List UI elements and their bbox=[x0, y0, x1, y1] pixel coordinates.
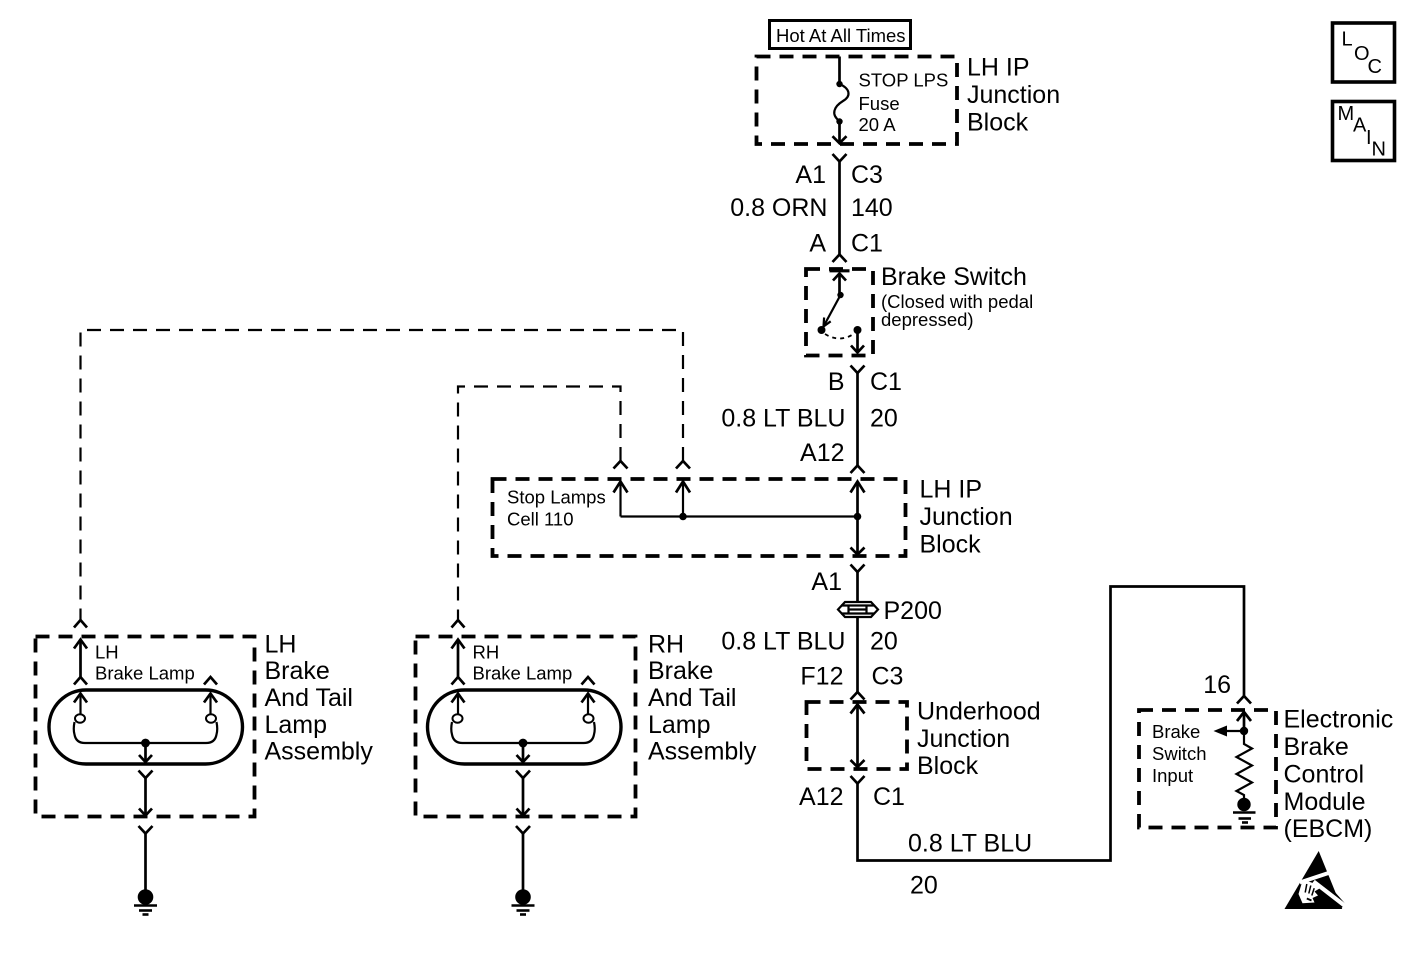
svg-text:P200: P200 bbox=[884, 597, 942, 625]
label RH Brake Lamp (inside box) bbox=[473, 642, 573, 684]
brake switch contacts and arm bbox=[818, 271, 865, 353]
fuse STOP LPS 20 A bbox=[833, 57, 949, 144]
LOC reference box bbox=[1333, 23, 1395, 82]
chevron into stop lamps box bbox=[851, 466, 865, 474]
svg-text:Block: Block bbox=[920, 531, 982, 559]
RH ground G402 bbox=[512, 889, 535, 914]
svg-text:Stop Lamps: Stop Lamps bbox=[507, 487, 606, 508]
brake switch dashed box bbox=[806, 269, 873, 356]
LH ground G401 bbox=[134, 889, 157, 914]
resistor inside EBCM bbox=[1237, 731, 1253, 798]
internal bus wires of stop lamps cell bbox=[614, 482, 865, 555]
LH brake and tail lamp assembly dashed box bbox=[36, 637, 255, 817]
wire into LH lamp bbox=[74, 640, 87, 685]
svg-text:Brake Lamp: Brake Lamp bbox=[473, 663, 573, 684]
terminal labels B / C1 bbox=[828, 368, 902, 396]
svg-text:C1: C1 bbox=[870, 368, 902, 396]
svg-text:A: A bbox=[809, 230, 826, 258]
svg-text:Hot At All Times: Hot At All Times bbox=[776, 25, 906, 46]
electronic brake control module dashed box bbox=[1139, 710, 1276, 828]
ground inside EBCM bbox=[1233, 798, 1256, 823]
svg-text:20 A: 20 A bbox=[859, 114, 897, 135]
wire through underhood junction block bbox=[851, 705, 865, 768]
svg-text:Input: Input bbox=[1152, 765, 1193, 786]
svg-text:16: 16 bbox=[1203, 671, 1231, 699]
wire labels 0.8 LT BLU / 20 bbox=[721, 628, 897, 656]
chevron at RH lamp right filament bbox=[582, 677, 595, 685]
connector below brake switch (V) bbox=[851, 366, 865, 374]
wire 0.8 LT BLU 20 run to EBCM bbox=[858, 587, 1245, 861]
svg-text:A12: A12 bbox=[799, 783, 843, 811]
svg-text:M: M bbox=[1338, 103, 1355, 125]
RH brake and tail lamp assembly dashed box bbox=[416, 637, 636, 817]
svg-text:Underhood: Underhood bbox=[917, 698, 1041, 726]
chevron into LH lamp box bbox=[74, 620, 87, 628]
MAIN reference box bbox=[1333, 102, 1395, 161]
svg-text:N: N bbox=[1372, 139, 1386, 161]
svg-text:A: A bbox=[1353, 115, 1367, 137]
svg-text:Assembly: Assembly bbox=[648, 738, 757, 766]
svg-text:Electronic: Electronic bbox=[1284, 706, 1394, 734]
wire to LH box edge bbox=[139, 778, 152, 816]
connector below stop lamps box (V) bbox=[851, 565, 865, 573]
svg-text:B: B bbox=[828, 368, 845, 396]
dashed wire to RH lamp bbox=[458, 387, 621, 621]
svg-text:0.8 LT BLU: 0.8 LT BLU bbox=[908, 830, 1032, 858]
svg-text:C1: C1 bbox=[873, 783, 905, 811]
connector below LH bulb (V) bbox=[139, 771, 153, 779]
chevron into RH lamp box bbox=[452, 620, 465, 628]
svg-text:Fuse: Fuse bbox=[859, 93, 900, 114]
svg-text:C3: C3 bbox=[851, 161, 883, 189]
chevron at LH lamp right filament bbox=[204, 677, 217, 685]
svg-text:And Tail: And Tail bbox=[648, 684, 737, 712]
dashed wire to LH lamp bbox=[81, 330, 684, 620]
svg-text:L: L bbox=[1342, 29, 1353, 51]
svg-text:140: 140 bbox=[851, 194, 893, 222]
svg-text:Lamp: Lamp bbox=[265, 711, 328, 739]
chevron into EBCM bbox=[1237, 696, 1251, 704]
connector below LH box (V) bbox=[139, 826, 153, 834]
svg-text:LH: LH bbox=[95, 642, 119, 663]
svg-text:Block: Block bbox=[967, 109, 1029, 137]
svg-text:LH: LH bbox=[265, 631, 297, 659]
RH ground wire bbox=[522, 834, 525, 890]
connector below underhood box (V) bbox=[851, 776, 865, 784]
svg-text:0.8 LT BLU: 0.8 LT BLU bbox=[721, 628, 845, 656]
svg-text:20: 20 bbox=[910, 872, 938, 900]
wire into RH lamp bbox=[452, 640, 465, 685]
RH lamp filaments bbox=[451, 694, 595, 763]
connector C1 (chevron above brake switch) bbox=[833, 255, 847, 263]
svg-text:(EBCM): (EBCM) bbox=[1284, 815, 1373, 843]
wire labels 0.8 LT BLU / 20 bbox=[721, 405, 897, 433]
svg-text:Lamp: Lamp bbox=[648, 711, 711, 739]
svg-text:A12: A12 bbox=[800, 439, 844, 467]
svg-text:A1: A1 bbox=[811, 568, 842, 596]
svg-text:A1: A1 bbox=[795, 161, 826, 189]
svg-text:RH: RH bbox=[648, 631, 684, 659]
label Electronic Brake Control Module (EBCM) bbox=[1284, 706, 1394, 844]
connector C3 (V below fuse box) bbox=[833, 154, 847, 162]
svg-text:Brake Switch: Brake Switch bbox=[881, 263, 1027, 291]
svg-text:20: 20 bbox=[870, 405, 898, 433]
label LH Brake Lamp (inside box) bbox=[95, 642, 195, 684]
svg-text:Control: Control bbox=[1284, 761, 1365, 789]
svg-text:0.8 LT BLU: 0.8 LT BLU bbox=[721, 405, 845, 433]
LH IP junction block (fuse) dashed box bbox=[757, 57, 958, 145]
svg-text:Brake Lamp: Brake Lamp bbox=[95, 663, 195, 684]
wire to RH box edge bbox=[517, 778, 530, 816]
svg-text:Module: Module bbox=[1284, 788, 1366, 816]
brake switch input arrow and node bbox=[1214, 712, 1252, 737]
label LH Brake And Tail Lamp Assembly bbox=[265, 631, 374, 766]
connector below RH bulb (V) bbox=[516, 771, 530, 779]
svg-text:0.8 ORN: 0.8 ORN bbox=[730, 194, 827, 222]
wire 0.8 LT BLU circuit 20 bbox=[856, 373, 859, 466]
svg-text:Assembly: Assembly bbox=[265, 738, 374, 766]
svg-text:Junction: Junction bbox=[920, 503, 1013, 531]
svg-text:Block: Block bbox=[917, 752, 979, 780]
terminal labels A12 / C1 bbox=[799, 783, 905, 811]
svg-text:depressed): depressed) bbox=[881, 309, 974, 330]
LH lamp filaments bbox=[74, 694, 218, 763]
terminal labels A / C1 bbox=[809, 230, 883, 258]
svg-text:Brake: Brake bbox=[1284, 733, 1349, 761]
label Underhood Junction Block bbox=[917, 698, 1041, 781]
label LH IP Junction Block (top) bbox=[967, 54, 1060, 137]
wire labels 0.8 ORN / 140 bbox=[730, 194, 892, 222]
svg-text:LH IP: LH IP bbox=[967, 54, 1030, 82]
svg-text:Switch: Switch bbox=[1152, 743, 1207, 764]
RH lamp bulb oval bbox=[428, 690, 622, 764]
svg-text:C1: C1 bbox=[851, 230, 883, 258]
wire labels 0.8 LT BLU / 20 bbox=[908, 830, 1032, 900]
terminal labels A1 / C3 bbox=[795, 161, 883, 189]
wire 0.8 LT BLU 20 below P200 bbox=[856, 617, 859, 692]
LH ground wire bbox=[144, 834, 147, 890]
chevron into underhood junction block bbox=[851, 692, 865, 700]
connector below RH box (V) bbox=[516, 826, 530, 834]
power label box "Hot At All Times" bbox=[770, 21, 911, 49]
ESD sensitivity symbol bbox=[1285, 851, 1348, 909]
inline connector P200 bbox=[838, 597, 942, 625]
wire down to P200 bbox=[856, 572, 859, 602]
svg-text:Junction: Junction bbox=[967, 81, 1060, 109]
svg-text:Brake: Brake bbox=[648, 657, 713, 685]
svg-text:C3: C3 bbox=[872, 663, 904, 691]
svg-text:Brake: Brake bbox=[1152, 721, 1200, 742]
label Brake Switch Input bbox=[1152, 721, 1207, 786]
svg-text:STOP LPS: STOP LPS bbox=[859, 70, 949, 91]
svg-text:Brake: Brake bbox=[265, 657, 330, 685]
svg-text:RH: RH bbox=[473, 642, 500, 663]
underhood junction block dashed box bbox=[807, 702, 908, 769]
svg-text:F12: F12 bbox=[800, 663, 843, 691]
stop lamps cell 110 dashed box bbox=[493, 479, 906, 556]
svg-text:And Tail: And Tail bbox=[265, 684, 354, 712]
LH lamp bulb oval bbox=[49, 690, 243, 764]
svg-text:Cell 110: Cell 110 bbox=[507, 509, 574, 530]
terminal labels F12 / C3 bbox=[800, 663, 903, 691]
label LH IP Junction Block (middle) bbox=[920, 476, 1013, 559]
svg-text:Junction: Junction bbox=[917, 725, 1010, 753]
label Stop Lamps Cell 110 bbox=[507, 487, 606, 530]
svg-text:LH IP: LH IP bbox=[920, 476, 983, 504]
svg-text:C: C bbox=[1368, 56, 1382, 78]
label Brake Switch bbox=[881, 263, 1033, 330]
label RH Brake And Tail Lamp Assembly bbox=[648, 631, 757, 766]
svg-text:20: 20 bbox=[870, 628, 898, 656]
wire 0.8 ORN circuit 140 bbox=[838, 162, 841, 255]
chevrons above stop lamps box bbox=[614, 461, 628, 469]
